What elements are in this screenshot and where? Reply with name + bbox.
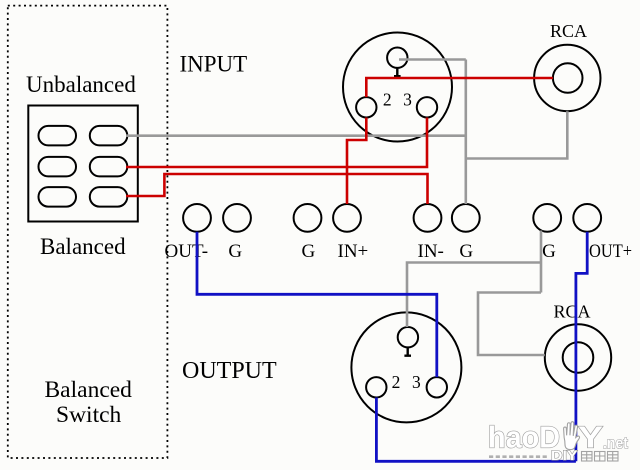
svg-text:3: 3 — [403, 90, 412, 110]
watermark CJK glyph 1 — [582, 452, 593, 462]
switch S1 contact B1 — [90, 126, 128, 145]
J1 pin 3 — [417, 97, 437, 117]
svg-text:G: G — [542, 241, 556, 262]
terminal G2 — [294, 204, 322, 232]
wire red: switch B3 to terminal IN- — [126, 174, 428, 204]
terminal G3 — [452, 204, 480, 232]
wire red: J1 pin2 to terminal IN+ — [347, 118, 366, 205]
wire gray: terminal G4 down — [540, 231, 543, 293]
J3 pin 1 marker — [404, 347, 411, 355]
svg-text:INPUT: INPUT — [180, 52, 248, 77]
watermark dashes — [489, 455, 549, 458]
J3 pin 3 — [427, 377, 447, 397]
terminal IN+ — [333, 204, 361, 232]
svg-text:RCA: RCA — [554, 302, 591, 322]
wire gray: RCA J2 shell drop — [466, 111, 568, 158]
svg-text:Balanced: Balanced — [45, 377, 133, 403]
svg-text:2: 2 — [392, 372, 401, 392]
terminal G1 — [223, 204, 251, 232]
svg-text:G: G — [228, 241, 242, 262]
wire gray: switch B1 to ground bus — [126, 134, 466, 137]
wire gray: ground to J3 pin1 — [407, 263, 541, 328]
svg-text:3: 3 — [412, 372, 421, 392]
J1 pin 1 — [387, 48, 407, 68]
switch S1 body — [28, 106, 138, 222]
XLR input connector J1 shell — [343, 33, 452, 142]
switch S1 contact A3 — [39, 187, 77, 207]
svg-text:IN-: IN- — [418, 241, 444, 262]
RCA output jack J4 shell — [545, 324, 611, 390]
terminal OUT- — [183, 204, 211, 232]
svg-text:RCA: RCA — [550, 21, 587, 41]
wire gray: ground to RCA J4 shell — [478, 293, 545, 356]
switch S1 contact A2 — [39, 157, 77, 177]
J1 pin 1 marker — [394, 68, 401, 76]
svg-text:2: 2 — [383, 90, 392, 110]
svg-text:G: G — [459, 241, 473, 262]
switch S1 contact B2 — [90, 157, 128, 177]
wire blue: bottom run to J3 pin2 — [376, 398, 576, 462]
wire blue: terminal OUT- to J3 pin3 — [197, 232, 437, 377]
wire red: J1 pin3 to switch B2 — [126, 118, 427, 168]
dashed enclosure: balanced switch module — [8, 6, 168, 458]
svg-text:haoD: haoD — [488, 420, 560, 455]
watermark CJK glyph 3 — [608, 452, 619, 462]
wire blue: terminal OUT+ down — [576, 232, 587, 461]
J3 pin 1 — [398, 327, 418, 347]
svg-text:.net: .net — [603, 435, 628, 453]
svg-text:Switch: Switch — [56, 402, 122, 428]
svg-text:Balanced: Balanced — [40, 234, 126, 259]
svg-text:DIY: DIY — [551, 447, 578, 463]
svg-text:Unbalanced: Unbalanced — [26, 72, 136, 97]
watermark haoDIY logo — [488, 420, 628, 455]
J1 pin 2 — [356, 97, 376, 117]
svg-text:IN+: IN+ — [338, 241, 369, 262]
RCA output jack J4 center pin — [563, 342, 594, 373]
wire gray: J1 pin1 to ground bus — [399, 58, 466, 61]
svg-text:OUT+: OUT+ — [589, 241, 632, 262]
svg-text:G: G — [302, 241, 316, 262]
terminal IN- — [414, 204, 442, 232]
watermark CJK glyph 2 — [595, 452, 606, 462]
wire red: J1 pin2 to RCA J2 center — [366, 78, 553, 97]
RCA input jack J2 center pin — [553, 63, 583, 93]
RCA input jack J2 shell — [534, 45, 600, 111]
svg-text:OUTPUT: OUTPUT — [182, 358, 277, 384]
switch S1 contact B3 — [90, 187, 128, 207]
terminal OUT+ — [573, 204, 601, 232]
switch S1 contact A1 — [39, 126, 77, 145]
J3 pin 2 — [366, 377, 386, 397]
svg-text:OUT-: OUT- — [165, 241, 209, 262]
svg-text:Y: Y — [578, 420, 603, 455]
watermark hand glyph — [564, 422, 580, 450]
wire gray: ground bus vertical to terminal G3 — [464, 60, 467, 205]
terminal G4 — [533, 204, 561, 232]
XLR output connector J3 shell — [351, 312, 461, 422]
